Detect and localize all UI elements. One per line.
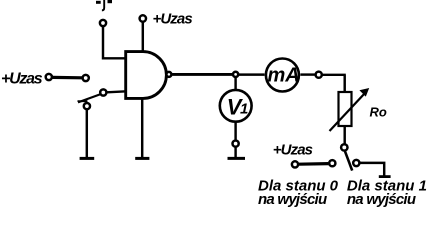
svg-text:1: 1: [240, 101, 248, 118]
svg-text:+Uzas: +Uzas: [153, 11, 193, 28]
svg-text:Ro: Ro: [370, 105, 387, 120]
svg-text:na wyjściu: na wyjściu: [258, 191, 327, 208]
svg-text:+Uzas: +Uzas: [1, 70, 43, 87]
svg-text:+Uzas: +Uzas: [273, 141, 313, 158]
svg-text:na wyjściu: na wyjściu: [347, 191, 416, 208]
svg-text:mA: mA: [268, 65, 300, 87]
